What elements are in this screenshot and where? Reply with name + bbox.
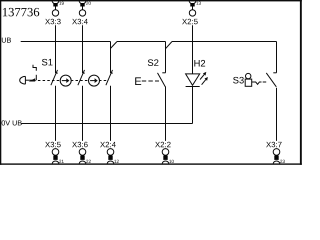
wire UB rail jog diagonal 1 bbox=[111, 42, 118, 49]
S1 contact 2 (NO contact) bbox=[78, 70, 85, 85]
S1 mushroom head actuator bbox=[20, 76, 34, 84]
S3 reed contact (NO, mirrored) bbox=[266, 73, 276, 87]
wire UB rail drop to S3 bbox=[276, 42, 278, 73]
S1 mechanical link dashed bbox=[33, 80, 106, 82]
S1 detent latch bbox=[29, 65, 37, 82]
switch S2 label bbox=[148, 59, 159, 66]
switch S1 label bbox=[42, 59, 53, 66]
terminal X3:5 (bottom) bbox=[45, 142, 64, 164]
S2 contact (NO contact, mirrored) bbox=[158, 73, 166, 87]
S3 magnet actuator circle on box bbox=[245, 73, 252, 86]
wire S1 contact 3 to X2:4 bbox=[110, 86, 112, 141]
wire UB rail left segment bbox=[21, 41, 111, 43]
lamp H2 label bbox=[194, 60, 205, 67]
wire S3 to X3:7 bbox=[276, 88, 278, 141]
S3 actuation dash bbox=[263, 81, 267, 83]
S2 actuator label E bbox=[135, 77, 141, 85]
terminal X2:4 (bottom) bbox=[100, 142, 119, 164]
wire H2 cathode down bbox=[192, 87, 194, 124]
terminal X3:7 (bottom) bbox=[266, 142, 285, 164]
wire 0V rail bbox=[22, 123, 193, 125]
wire UB rail jog diagonal 2 bbox=[166, 42, 173, 49]
terminal X3:6 (bottom) bbox=[72, 142, 91, 164]
drawing number 137736 bbox=[3, 8, 39, 16]
lamp H2 LED symbol bbox=[186, 72, 208, 87]
S1 detent indicator circle 1 bbox=[60, 75, 71, 86]
net label UB bbox=[2, 38, 11, 43]
terminal X3:4 (top) bbox=[72, 1, 91, 73]
wire S1 contact 2 to X3:6 bbox=[82, 86, 84, 141]
S1 detent indicator circle 2 bbox=[89, 75, 100, 86]
S3 actuation squiggle bbox=[252, 82, 262, 84]
wire H2 return riser bbox=[192, 87, 194, 124]
terminal X2:5 (top) bbox=[182, 1, 201, 74]
wire UB rail drop to S1 contact 3 bbox=[110, 42, 112, 74]
S2 actuation link dashed bbox=[142, 80, 159, 82]
S1 contact 3 (NO contact) bbox=[106, 70, 113, 85]
wire UB rail drop to S2 bbox=[165, 42, 167, 73]
wire UB rail mid segment bbox=[117, 41, 166, 43]
S1 contact 1 (NO contact) bbox=[51, 70, 58, 85]
terminal X3:3 (top) bbox=[45, 1, 64, 73]
switch S3 label bbox=[233, 77, 244, 84]
net label 0V UB bbox=[2, 120, 22, 125]
frame border bbox=[0, 0, 302, 165]
wire S2 to X2:2 bbox=[165, 87, 167, 141]
wire UB rail right segment bbox=[172, 41, 277, 43]
wire S1 contact 1 to X3:5 bbox=[55, 86, 57, 141]
terminal X2:2 (bottom) bbox=[155, 142, 174, 164]
